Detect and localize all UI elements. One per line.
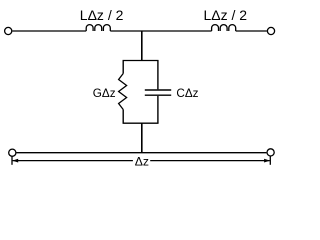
dimension line left segment <box>13 160 133 162</box>
terminal circle top-left <box>5 27 12 34</box>
dimension tick right <box>269 156 271 165</box>
dimension line right segment <box>150 160 270 162</box>
wire box top <box>123 60 159 62</box>
svg-text:CΔz: CΔz <box>176 87 198 100</box>
terminal circle bottom-left <box>9 149 16 156</box>
wire box left lower <box>122 110 124 124</box>
svg-text:LΔz / 2: LΔz / 2 <box>204 7 248 23</box>
dimension tick left <box>11 156 13 165</box>
svg-text:Δz: Δz <box>135 154 149 168</box>
dimension arrowhead left <box>12 159 18 163</box>
wire box right lower <box>157 96 159 123</box>
resistor G (GΔz) zigzag <box>119 74 127 110</box>
wire top-left <box>12 30 86 32</box>
wire box right upper <box>157 61 159 90</box>
terminal circle bottom-right <box>267 149 274 156</box>
inductor L1 (left, LΔz/2) <box>86 25 110 31</box>
terminal circle top-right <box>267 27 274 34</box>
wire box bottom <box>123 122 159 124</box>
wire box left upper <box>122 61 124 74</box>
inductor L2 (right, LΔz/2) <box>212 25 236 31</box>
svg-text:GΔz: GΔz <box>93 87 116 100</box>
capacitor C plate bottom <box>145 94 171 96</box>
svg-text:LΔz / 2: LΔz / 2 <box>80 7 124 23</box>
wire center stub bottom <box>141 123 143 153</box>
wire center stub top <box>141 31 143 61</box>
dimension arrowhead right <box>264 159 270 163</box>
wire bottom rail <box>17 152 267 154</box>
wire top-right <box>236 30 267 32</box>
wire top-middle <box>110 30 211 32</box>
capacitor C plate top <box>145 89 171 91</box>
